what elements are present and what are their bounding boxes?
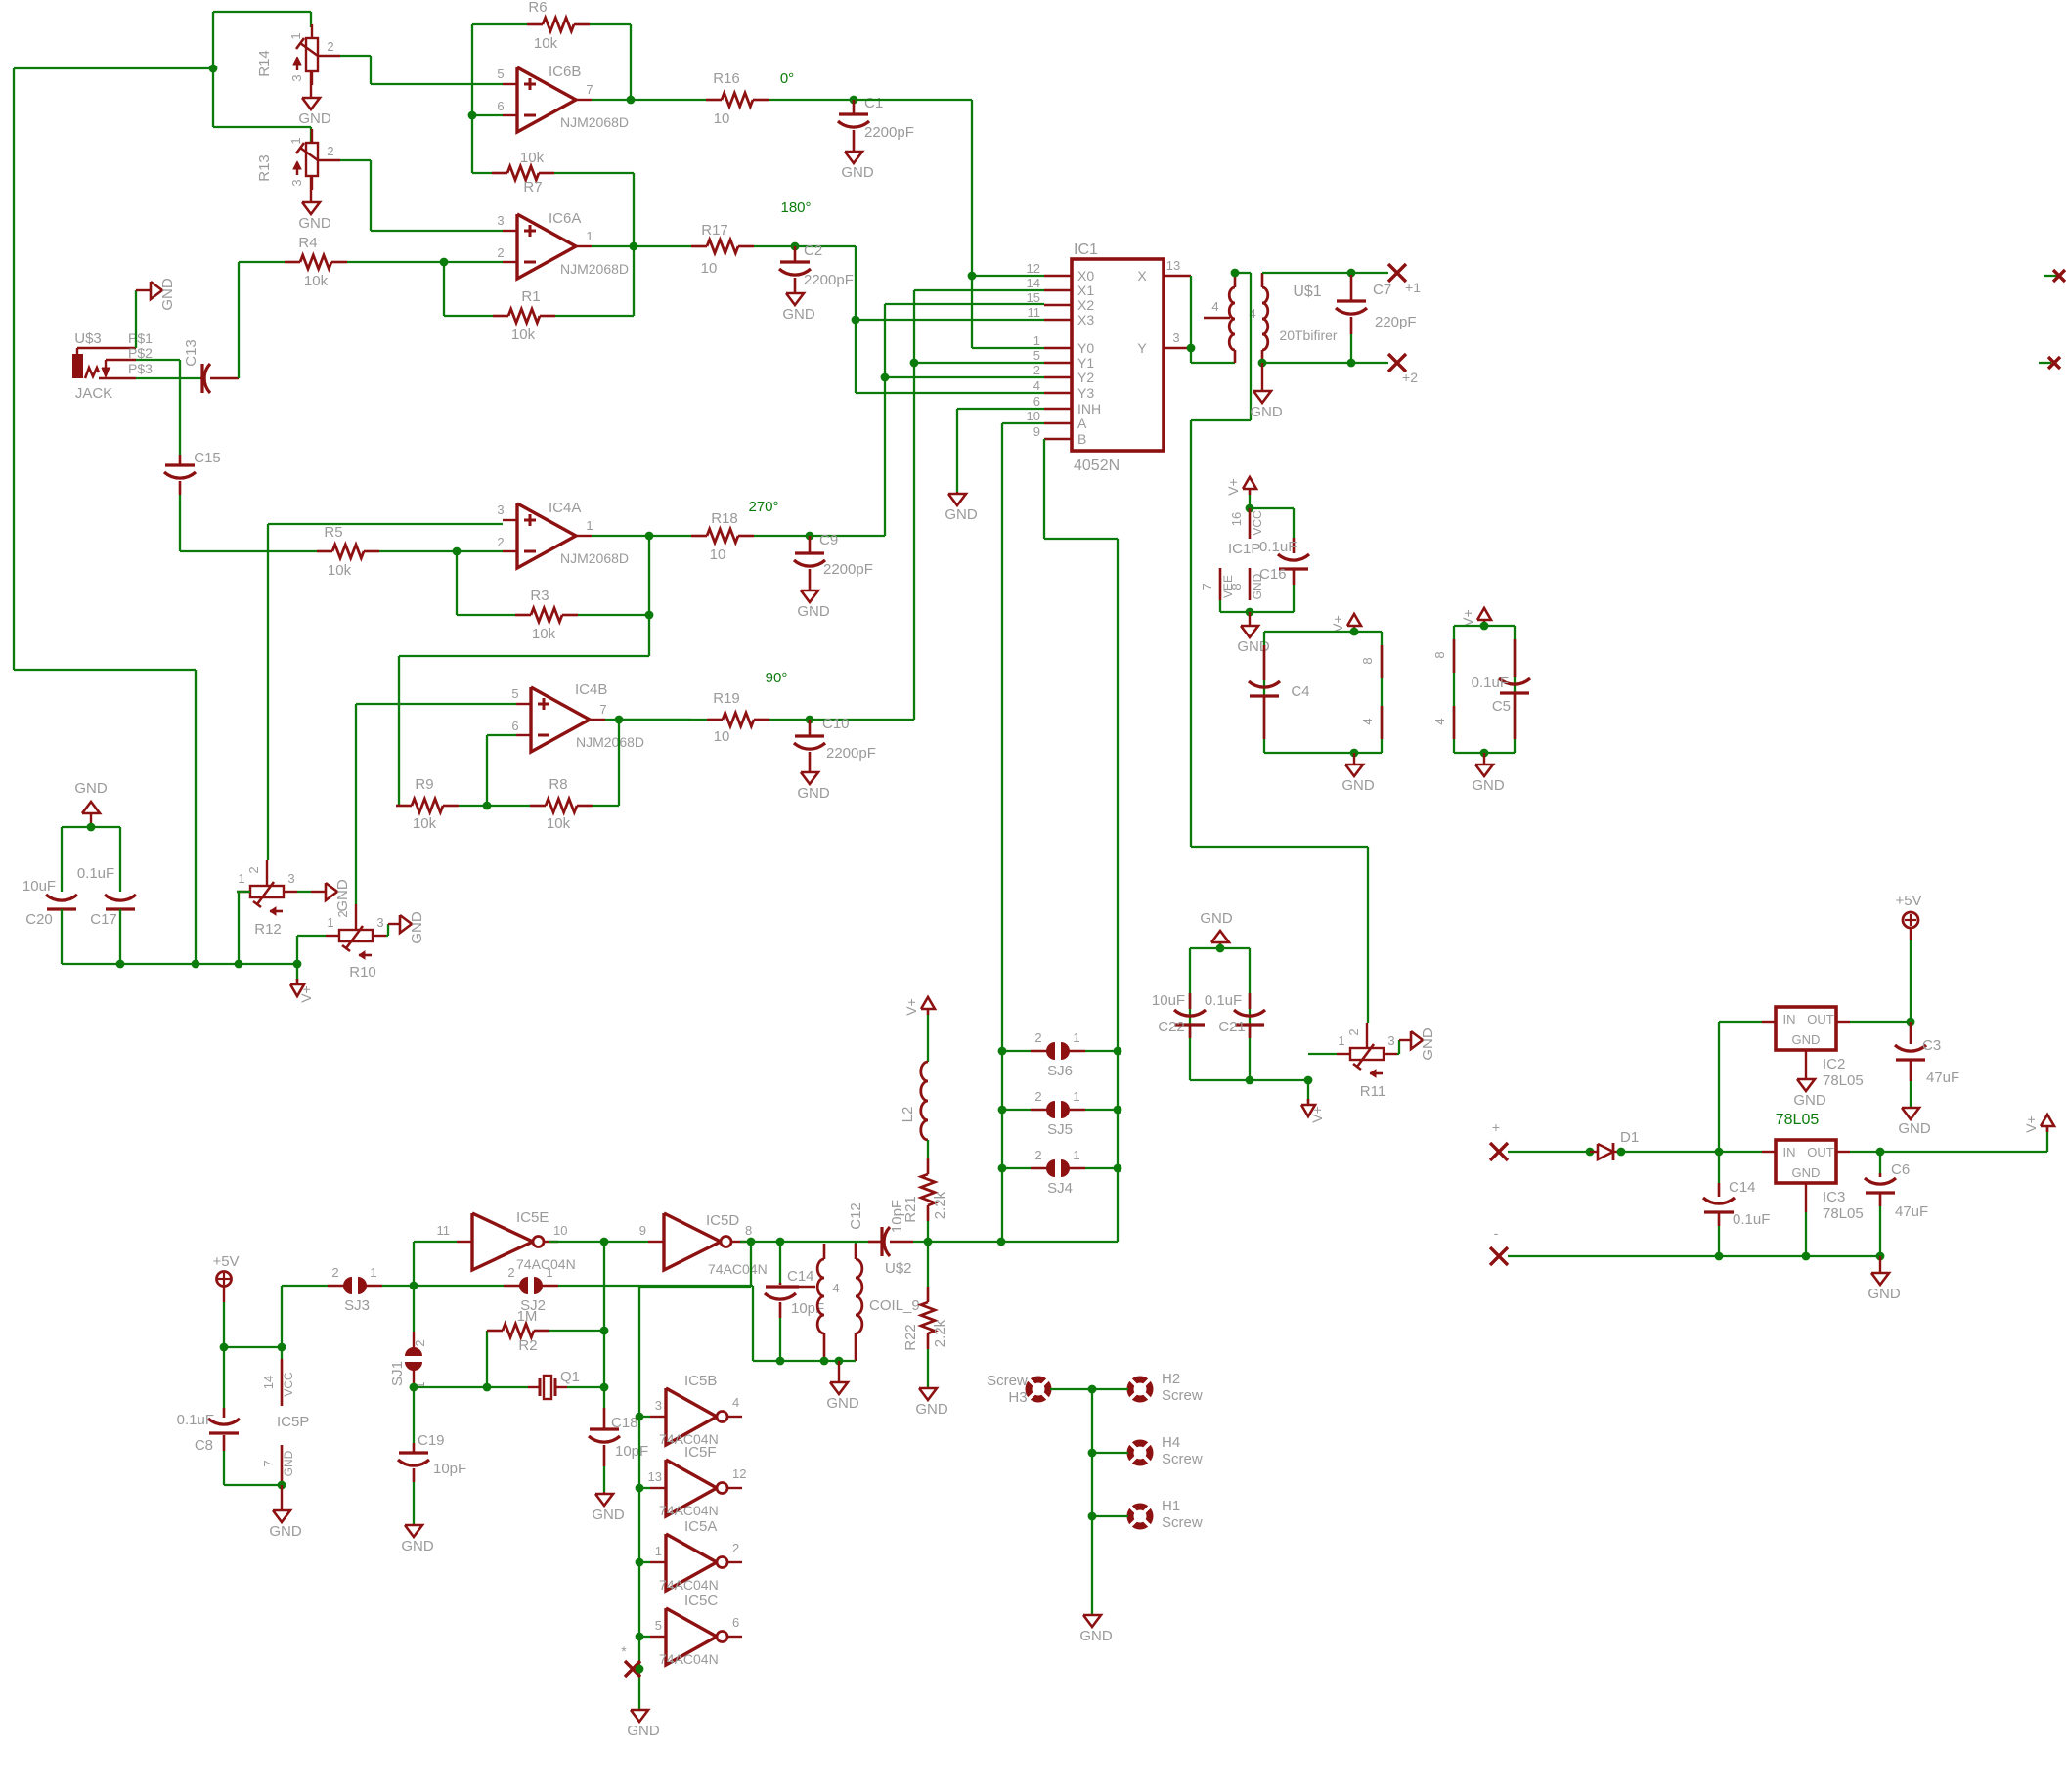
svg-text:V+: V+ bbox=[1460, 609, 1475, 627]
svg-text:7: 7 bbox=[599, 702, 606, 717]
svg-text:74AC04N: 74AC04N bbox=[659, 1577, 719, 1593]
svg-text:2.2k: 2.2k bbox=[932, 1319, 948, 1347]
svg-text:R1: R1 bbox=[521, 288, 540, 305]
svg-text:NJM2068D: NJM2068D bbox=[576, 734, 644, 750]
svg-text:C18: C18 bbox=[611, 1415, 638, 1431]
svg-text:GND: GND bbox=[1868, 1286, 1901, 1302]
svg-text:R4: R4 bbox=[298, 235, 317, 251]
svg-text:C10: C10 bbox=[822, 716, 850, 732]
svg-text:8: 8 bbox=[1360, 657, 1375, 664]
svg-text:R22: R22 bbox=[902, 1324, 919, 1351]
svg-text:Y1: Y1 bbox=[1077, 355, 1094, 371]
svg-text:47uF: 47uF bbox=[1895, 1203, 1928, 1220]
svg-text:2200pF: 2200pF bbox=[823, 561, 873, 578]
svg-text:10k: 10k bbox=[534, 35, 558, 52]
svg-text:VCC: VCC bbox=[1251, 510, 1264, 536]
svg-text:GND: GND bbox=[409, 911, 425, 944]
svg-text:10uF: 10uF bbox=[22, 878, 56, 895]
svg-text:R17: R17 bbox=[701, 222, 728, 239]
svg-text:180°: 180° bbox=[780, 199, 811, 216]
svg-text:C14: C14 bbox=[787, 1268, 814, 1285]
svg-text:4052N: 4052N bbox=[1074, 458, 1120, 474]
svg-text:GND: GND bbox=[401, 1538, 434, 1554]
svg-text:R14: R14 bbox=[256, 50, 273, 77]
svg-text:12: 12 bbox=[1027, 261, 1040, 276]
svg-text:VCC: VCC bbox=[282, 1372, 295, 1397]
svg-text:14: 14 bbox=[1027, 276, 1040, 290]
svg-text:GND: GND bbox=[627, 1723, 660, 1739]
svg-text:2: 2 bbox=[327, 39, 333, 54]
svg-text:R10: R10 bbox=[349, 964, 376, 981]
svg-text:270°: 270° bbox=[748, 499, 778, 515]
svg-text:Screw: Screw bbox=[1162, 1387, 1203, 1404]
svg-text:JACK: JACK bbox=[75, 385, 112, 402]
svg-text:3: 3 bbox=[1387, 1033, 1394, 1048]
svg-text:12: 12 bbox=[732, 1466, 746, 1481]
svg-text:C7: C7 bbox=[1373, 282, 1391, 298]
svg-text:V+: V+ bbox=[1330, 615, 1345, 633]
svg-text:0.1uF: 0.1uF bbox=[177, 1412, 214, 1428]
svg-text:1: 1 bbox=[327, 915, 333, 930]
svg-text:IC6A: IC6A bbox=[549, 210, 581, 227]
svg-text:90°: 90° bbox=[766, 670, 788, 686]
svg-text:6: 6 bbox=[497, 99, 504, 113]
svg-text:20Tbifirer: 20Tbifirer bbox=[1279, 328, 1337, 343]
svg-text:13: 13 bbox=[1166, 258, 1180, 273]
svg-text:10pF: 10pF bbox=[615, 1443, 648, 1460]
svg-text:C6: C6 bbox=[1891, 1161, 1910, 1178]
svg-text:V+: V+ bbox=[1309, 1106, 1325, 1123]
svg-text:U$1: U$1 bbox=[1293, 284, 1321, 300]
svg-text:GND: GND bbox=[945, 506, 978, 523]
svg-text:C3: C3 bbox=[1922, 1037, 1941, 1054]
svg-text:X0: X0 bbox=[1077, 268, 1094, 284]
svg-text:3: 3 bbox=[1172, 330, 1179, 345]
svg-text:GND: GND bbox=[841, 164, 874, 181]
svg-text:47uF: 47uF bbox=[1926, 1070, 1959, 1086]
svg-text:P$3: P$3 bbox=[128, 361, 153, 376]
svg-text:13: 13 bbox=[648, 1469, 662, 1484]
svg-text:R11: R11 bbox=[1360, 1083, 1385, 1100]
svg-text:3: 3 bbox=[497, 503, 504, 517]
svg-text:GND: GND bbox=[1341, 777, 1375, 794]
svg-text:4: 4 bbox=[1033, 378, 1040, 393]
svg-text:OUT: OUT bbox=[1807, 1012, 1834, 1027]
svg-text:IC1: IC1 bbox=[1074, 241, 1098, 258]
svg-text:P$1: P$1 bbox=[128, 330, 153, 346]
svg-text:1: 1 bbox=[238, 871, 244, 886]
svg-text:GND: GND bbox=[74, 780, 108, 797]
svg-text:Y2: Y2 bbox=[1077, 370, 1094, 385]
svg-text:1: 1 bbox=[288, 137, 303, 144]
svg-text:78L05: 78L05 bbox=[1776, 1112, 1820, 1128]
svg-text:10: 10 bbox=[1027, 409, 1040, 423]
svg-text:IC6B: IC6B bbox=[549, 64, 581, 80]
svg-text:9: 9 bbox=[639, 1223, 646, 1238]
svg-text:5: 5 bbox=[497, 66, 504, 81]
svg-text:10pF: 10pF bbox=[433, 1461, 466, 1477]
svg-text:10pF: 10pF bbox=[791, 1300, 824, 1317]
svg-text:3: 3 bbox=[287, 871, 294, 886]
svg-text:GND: GND bbox=[797, 603, 830, 620]
svg-text:2: 2 bbox=[1033, 363, 1040, 377]
svg-text:10: 10 bbox=[553, 1223, 567, 1238]
svg-text:IC3: IC3 bbox=[1823, 1189, 1845, 1205]
svg-text:10: 10 bbox=[710, 546, 726, 563]
svg-text:1: 1 bbox=[546, 1265, 552, 1280]
svg-text:2: 2 bbox=[1034, 1030, 1041, 1045]
svg-text:15: 15 bbox=[1027, 290, 1040, 305]
svg-text:R8: R8 bbox=[549, 776, 567, 793]
svg-text:A: A bbox=[1077, 415, 1087, 431]
svg-text:Q1: Q1 bbox=[560, 1369, 580, 1385]
svg-text:2.2k: 2.2k bbox=[932, 1191, 948, 1219]
svg-text:10k: 10k bbox=[328, 562, 352, 579]
svg-text:0.1uF: 0.1uF bbox=[1733, 1211, 1770, 1228]
svg-text:GND: GND bbox=[915, 1401, 948, 1418]
svg-text:D1: D1 bbox=[1620, 1129, 1639, 1146]
svg-text:2: 2 bbox=[246, 866, 261, 873]
svg-text:GND: GND bbox=[298, 110, 331, 127]
svg-text:R13: R13 bbox=[256, 154, 273, 182]
svg-text:V+: V+ bbox=[903, 998, 919, 1016]
svg-text:GND: GND bbox=[1420, 1027, 1436, 1061]
svg-text:78L05: 78L05 bbox=[1823, 1072, 1864, 1089]
svg-text:GND: GND bbox=[334, 879, 351, 912]
svg-text:C19: C19 bbox=[418, 1432, 445, 1449]
svg-text:0.1uF: 0.1uF bbox=[1259, 539, 1297, 555]
svg-text:0.1uF: 0.1uF bbox=[77, 865, 114, 882]
svg-text:GND: GND bbox=[282, 1450, 295, 1476]
svg-text:2: 2 bbox=[1034, 1148, 1041, 1162]
svg-text:4: 4 bbox=[732, 1395, 739, 1410]
svg-text:*: * bbox=[621, 1643, 627, 1659]
svg-text:IC5P: IC5P bbox=[277, 1414, 309, 1430]
svg-text:Screw: Screw bbox=[987, 1373, 1028, 1389]
svg-text:SJ4: SJ4 bbox=[1047, 1180, 1073, 1197]
svg-text:2: 2 bbox=[331, 1265, 338, 1280]
svg-text:H3: H3 bbox=[1008, 1389, 1027, 1406]
svg-text:V+: V+ bbox=[2023, 1115, 2039, 1133]
svg-text:X: X bbox=[1137, 268, 1147, 284]
svg-text:Y3: Y3 bbox=[1077, 385, 1094, 401]
svg-text:C17: C17 bbox=[90, 911, 117, 928]
svg-text:H1: H1 bbox=[1162, 1498, 1180, 1514]
svg-text:GND: GND bbox=[1898, 1120, 1931, 1137]
svg-text:2: 2 bbox=[497, 535, 504, 549]
svg-text:1M: 1M bbox=[517, 1308, 538, 1325]
svg-text:10: 10 bbox=[701, 260, 718, 277]
svg-text:1: 1 bbox=[288, 32, 303, 39]
svg-text:1: 1 bbox=[586, 229, 593, 243]
svg-text:U$2: U$2 bbox=[885, 1260, 912, 1277]
svg-text:C12: C12 bbox=[848, 1202, 864, 1230]
svg-text:H4: H4 bbox=[1162, 1434, 1180, 1451]
svg-text:R5: R5 bbox=[324, 524, 342, 541]
svg-text:4: 4 bbox=[832, 1281, 839, 1295]
svg-text:2: 2 bbox=[1346, 1028, 1361, 1035]
svg-text:4: 4 bbox=[1211, 299, 1218, 314]
svg-text:C1: C1 bbox=[864, 95, 883, 111]
svg-text:+2: +2 bbox=[1402, 370, 1418, 385]
svg-text:6: 6 bbox=[1033, 394, 1040, 409]
svg-text:11: 11 bbox=[1028, 305, 1041, 320]
svg-text:COIL_9: COIL_9 bbox=[869, 1297, 920, 1314]
svg-text:R9: R9 bbox=[415, 776, 433, 793]
svg-text:10: 10 bbox=[714, 110, 730, 127]
svg-text:8: 8 bbox=[745, 1223, 752, 1238]
svg-text:2200pF: 2200pF bbox=[804, 272, 854, 288]
svg-text:C13: C13 bbox=[183, 339, 199, 367]
svg-text:IC5D: IC5D bbox=[706, 1212, 739, 1229]
svg-text:4: 4 bbox=[1432, 718, 1447, 724]
svg-text:4: 4 bbox=[1360, 718, 1375, 724]
svg-text:NJM2068D: NJM2068D bbox=[560, 550, 629, 566]
svg-text:1: 1 bbox=[370, 1265, 376, 1280]
svg-text:C15: C15 bbox=[194, 450, 221, 466]
svg-text:IC5B: IC5B bbox=[684, 1373, 717, 1389]
svg-text:R2: R2 bbox=[518, 1337, 537, 1354]
svg-text:C8: C8 bbox=[195, 1437, 213, 1454]
svg-text:3: 3 bbox=[289, 74, 304, 81]
svg-text:74AC04N: 74AC04N bbox=[659, 1503, 719, 1518]
svg-text:7: 7 bbox=[1200, 583, 1214, 590]
svg-text:SJ5: SJ5 bbox=[1047, 1121, 1073, 1138]
svg-text:Y: Y bbox=[1137, 340, 1147, 356]
svg-text:X3: X3 bbox=[1077, 312, 1094, 328]
svg-text:GND: GND bbox=[782, 306, 815, 323]
svg-text:8: 8 bbox=[1432, 651, 1447, 658]
svg-text:C22: C22 bbox=[1158, 1019, 1185, 1035]
svg-text:+5V: +5V bbox=[1895, 893, 1921, 909]
svg-text:B: B bbox=[1077, 431, 1086, 447]
svg-text:1: 1 bbox=[655, 1544, 662, 1558]
svg-text:R18: R18 bbox=[711, 510, 738, 527]
svg-text:5: 5 bbox=[655, 1618, 662, 1633]
svg-text:0°: 0° bbox=[780, 70, 794, 87]
svg-text:+1: +1 bbox=[1405, 280, 1421, 295]
svg-text:0.1uF: 0.1uF bbox=[1472, 675, 1509, 691]
svg-text:R7: R7 bbox=[523, 179, 542, 196]
svg-text:10k: 10k bbox=[304, 273, 329, 289]
svg-text:INH: INH bbox=[1077, 401, 1101, 416]
svg-text:GND: GND bbox=[1200, 910, 1233, 927]
svg-text:14: 14 bbox=[261, 1376, 276, 1389]
svg-text:10k: 10k bbox=[520, 150, 545, 166]
svg-text:IC1P: IC1P bbox=[1228, 541, 1260, 557]
svg-text:IC2: IC2 bbox=[1823, 1056, 1845, 1072]
svg-text:IC4A: IC4A bbox=[549, 500, 581, 516]
svg-text:IC5A: IC5A bbox=[684, 1518, 717, 1535]
svg-text:SJ3: SJ3 bbox=[344, 1297, 370, 1314]
svg-text:1: 1 bbox=[1073, 1148, 1079, 1162]
svg-text:2: 2 bbox=[507, 1265, 514, 1280]
svg-text:7: 7 bbox=[586, 82, 593, 97]
svg-text:0.1uF: 0.1uF bbox=[1205, 992, 1242, 1009]
svg-text:220pF: 220pF bbox=[1375, 314, 1417, 330]
svg-text:C21: C21 bbox=[1218, 1019, 1246, 1035]
svg-text:X2: X2 bbox=[1077, 297, 1094, 313]
svg-text:SJ6: SJ6 bbox=[1047, 1063, 1073, 1079]
svg-text:2: 2 bbox=[497, 245, 504, 260]
svg-text:C5: C5 bbox=[1492, 698, 1511, 715]
svg-text:+: + bbox=[1492, 1119, 1500, 1135]
svg-text:U$3: U$3 bbox=[74, 330, 102, 347]
svg-text:10k: 10k bbox=[413, 815, 437, 832]
svg-text:R16: R16 bbox=[713, 70, 740, 87]
svg-text:3: 3 bbox=[655, 1398, 662, 1413]
svg-text:6: 6 bbox=[511, 719, 518, 733]
svg-text:C14: C14 bbox=[1729, 1179, 1756, 1196]
svg-text:8: 8 bbox=[1229, 583, 1244, 590]
svg-text:2: 2 bbox=[327, 144, 333, 158]
svg-text:Y0: Y0 bbox=[1077, 340, 1094, 356]
svg-text:3: 3 bbox=[497, 213, 504, 228]
svg-text:GND: GND bbox=[1250, 404, 1283, 420]
svg-text:IN: IN bbox=[1783, 1145, 1796, 1159]
svg-text:OUT: OUT bbox=[1807, 1145, 1834, 1159]
svg-text:L2: L2 bbox=[900, 1107, 916, 1123]
svg-text:74AC04N: 74AC04N bbox=[708, 1261, 768, 1277]
svg-text:GND: GND bbox=[797, 785, 830, 802]
svg-text:X1: X1 bbox=[1077, 283, 1094, 298]
svg-text:1: 1 bbox=[1073, 1030, 1079, 1045]
svg-text:V+: V+ bbox=[298, 985, 314, 1003]
svg-text:10uF: 10uF bbox=[1152, 992, 1185, 1009]
svg-text:-: - bbox=[1494, 1225, 1499, 1241]
svg-text:78L05: 78L05 bbox=[1823, 1205, 1864, 1222]
svg-text:R21: R21 bbox=[902, 1196, 919, 1223]
svg-text:H2: H2 bbox=[1162, 1371, 1180, 1387]
svg-text:GND: GND bbox=[1792, 1032, 1821, 1047]
svg-text:C9: C9 bbox=[819, 532, 838, 548]
svg-text:IN: IN bbox=[1783, 1012, 1796, 1027]
svg-text:2200pF: 2200pF bbox=[864, 124, 914, 141]
svg-text:74AC04N: 74AC04N bbox=[659, 1651, 719, 1667]
svg-text:1: 1 bbox=[586, 518, 593, 533]
svg-text:GND: GND bbox=[1792, 1165, 1821, 1180]
svg-text:2200pF: 2200pF bbox=[826, 745, 876, 762]
svg-text:2: 2 bbox=[413, 1339, 427, 1346]
svg-text:C20: C20 bbox=[25, 911, 53, 928]
svg-text:5: 5 bbox=[511, 686, 518, 701]
svg-text:6: 6 bbox=[732, 1615, 739, 1630]
svg-text:5: 5 bbox=[1033, 348, 1040, 363]
svg-text:GND: GND bbox=[1793, 1092, 1826, 1109]
svg-text:R6: R6 bbox=[528, 0, 547, 16]
svg-text:GND: GND bbox=[592, 1507, 625, 1523]
svg-text:IC5F: IC5F bbox=[684, 1444, 717, 1461]
svg-text:GND: GND bbox=[269, 1523, 302, 1540]
svg-text:2: 2 bbox=[335, 910, 350, 917]
svg-text:V+: V+ bbox=[1225, 478, 1241, 496]
svg-text:1: 1 bbox=[1033, 333, 1040, 348]
svg-text:10k: 10k bbox=[511, 327, 536, 343]
svg-text:3: 3 bbox=[376, 915, 383, 930]
svg-text:Screw: Screw bbox=[1162, 1451, 1203, 1467]
svg-text:IC5C: IC5C bbox=[684, 1593, 718, 1609]
svg-text:11: 11 bbox=[437, 1223, 451, 1238]
svg-text:C2: C2 bbox=[804, 242, 822, 259]
svg-text:R19: R19 bbox=[713, 690, 740, 707]
svg-text:GND: GND bbox=[1251, 573, 1264, 599]
svg-text:2: 2 bbox=[1034, 1089, 1041, 1104]
svg-text:GND: GND bbox=[298, 215, 331, 232]
svg-text:9: 9 bbox=[1033, 424, 1040, 439]
svg-text:GND: GND bbox=[826, 1395, 859, 1412]
svg-text:R12: R12 bbox=[254, 921, 282, 938]
svg-text:NJM2068D: NJM2068D bbox=[560, 261, 629, 277]
svg-text:10: 10 bbox=[714, 728, 730, 745]
svg-text:1: 1 bbox=[1338, 1033, 1344, 1048]
svg-text:1: 1 bbox=[1073, 1089, 1079, 1104]
svg-text:2: 2 bbox=[732, 1541, 739, 1555]
svg-text:+5V: +5V bbox=[212, 1253, 239, 1270]
svg-text:GND: GND bbox=[159, 278, 176, 311]
svg-text:GND: GND bbox=[1472, 777, 1505, 794]
svg-text:10k: 10k bbox=[532, 626, 556, 642]
svg-text:SJ1: SJ1 bbox=[389, 1361, 406, 1386]
svg-text:10k: 10k bbox=[547, 815, 571, 832]
svg-text:P$2: P$2 bbox=[128, 345, 153, 361]
svg-text:IC5E: IC5E bbox=[516, 1209, 549, 1226]
svg-text:GND: GND bbox=[1079, 1628, 1113, 1644]
svg-text:Screw: Screw bbox=[1162, 1514, 1203, 1531]
svg-text:C4: C4 bbox=[1291, 683, 1309, 700]
svg-text:NJM2068D: NJM2068D bbox=[560, 114, 629, 130]
svg-text:7: 7 bbox=[261, 1460, 276, 1466]
svg-text:R3: R3 bbox=[530, 588, 549, 604]
svg-text:IC4B: IC4B bbox=[575, 681, 607, 698]
svg-text:16: 16 bbox=[1229, 512, 1244, 526]
svg-text:3: 3 bbox=[289, 179, 304, 186]
